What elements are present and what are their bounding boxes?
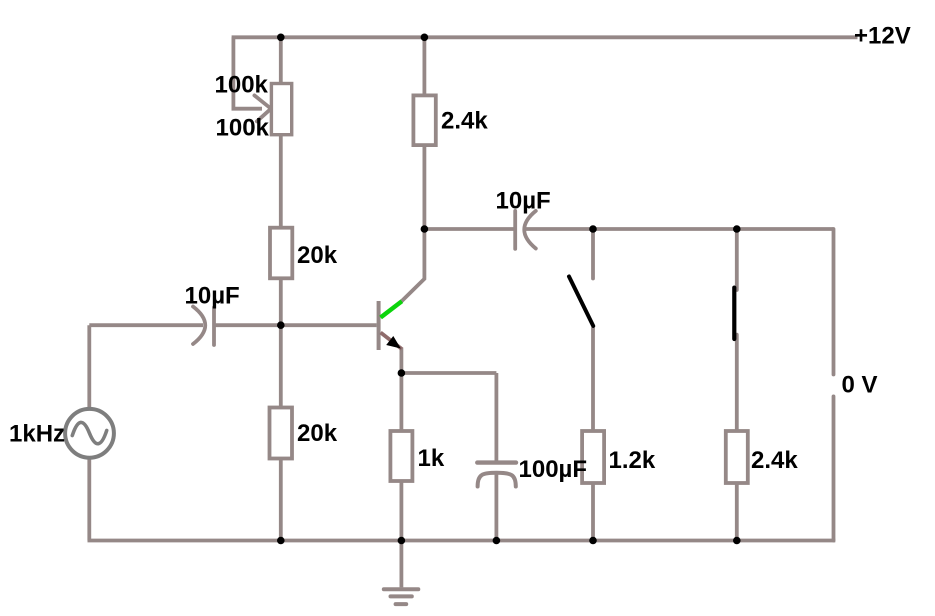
capacitor 10uF input curved plate: [193, 307, 205, 345]
wire output cap to right side: [526, 227, 834, 231]
svg-text:20k: 20k: [297, 420, 338, 447]
node bottom rail / 1k ground: [398, 537, 406, 545]
wire 1.2k to bottom rail: [591, 483, 595, 541]
AC source V1 sine wave: [72, 422, 106, 443]
node top rail / 2.4k: [421, 34, 429, 42]
wire 20k upper bottom to base node: [279, 278, 283, 325]
svg-text:1kHz: 1kHz: [9, 420, 65, 447]
svg-text:+12V: +12V: [854, 23, 911, 50]
wire switch S1 top lead: [591, 229, 595, 279]
svg-text:100k: 100k: [215, 72, 269, 99]
wire right side upper segment: [832, 229, 836, 375]
wire emitter node horizontal: [401, 371, 496, 375]
wire switch S2 top lead: [735, 229, 739, 290]
svg-text:10µF: 10µF: [185, 283, 240, 310]
svg-text:10µF: 10µF: [496, 188, 551, 215]
node output / switch S2: [733, 225, 741, 233]
wire 2.4k bottom to collector corner: [401, 145, 424, 302]
wire 2.4k bottom to rail: [735, 483, 739, 541]
wire down to 100uF cap: [494, 373, 498, 461]
svg-text:100k: 100k: [216, 115, 270, 142]
capacitor 10uF input straight plate: [212, 307, 216, 345]
transistor Q1 collector segment green (current): [381, 301, 402, 317]
wire bottom rail 0V: [88, 539, 836, 543]
svg-text:1k: 1k: [418, 445, 445, 472]
capacitor 10uF output straight plate: [513, 211, 517, 249]
wire 20k lower to bottom rail: [279, 458, 283, 541]
resistor 1k body: [390, 431, 412, 481]
wire top rail to potentiometer top: [279, 37, 283, 84]
wire source top lead: [87, 325, 91, 409]
node output / switch S1: [589, 225, 597, 233]
node bottom rail / 2.4k: [733, 537, 741, 545]
capacitor 100uF curved plate: [478, 473, 516, 487]
switch S1 blade (open): [569, 277, 593, 326]
capacitor 10uF output curved plate: [524, 211, 536, 249]
resistor 20k lower body: [270, 408, 293, 459]
node collector / output: [421, 225, 429, 233]
wire top rail +12V: [232, 35, 858, 39]
ground bar 1: [384, 587, 419, 591]
wire 1k to bottom rail: [399, 481, 403, 541]
node bottom rail / 100uF: [493, 537, 501, 545]
switch S2 blade (closed): [732, 288, 736, 339]
wire input cap to transistor base: [214, 323, 377, 327]
ground bar 2: [391, 594, 412, 598]
capacitor 100uF straight plate: [477, 460, 516, 464]
resistor 2.4k top body: [413, 95, 435, 145]
svg-text:20k: 20k: [297, 242, 338, 269]
wire 2.4k top lead from rail: [422, 37, 426, 96]
svg-text:100µF: 100µF: [519, 456, 588, 483]
svg-text:2.4k: 2.4k: [441, 108, 488, 135]
wire right side lower segment: [832, 396, 836, 540]
wire switch S1 bottom to 1.2k: [591, 328, 595, 432]
wire 100uF to bottom rail: [494, 475, 498, 541]
AC source V1 circle: [65, 409, 114, 458]
wire switch S2 bottom to 2.4k: [735, 335, 739, 432]
wire collector node to output cap: [424, 227, 514, 231]
node bottom rail / 20k: [277, 537, 285, 545]
transistor Q1 base bar: [377, 301, 381, 350]
svg-text:2.4k: 2.4k: [751, 447, 798, 474]
wire emitter vertical: [399, 348, 403, 432]
wire source bottom lead: [87, 458, 91, 541]
resistor 2.4k bottom body: [726, 431, 748, 483]
wire base node down to 20k lower: [279, 325, 283, 408]
potentiometer 100k body: [271, 84, 291, 135]
node top rail / pot: [277, 34, 285, 42]
node base / input: [277, 321, 285, 329]
svg-text:1.2k: 1.2k: [609, 447, 656, 474]
transistor Q1 emitter diagonal: [381, 333, 402, 350]
wire input left horizontal: [89, 323, 203, 327]
wire potentiometer wiper drop: [233, 37, 262, 108]
wire potentiometer bottom to 20k top: [279, 134, 283, 228]
transistor Q1 emitter arrow: [386, 336, 401, 349]
node bottom rail / 1.2k: [589, 537, 597, 545]
ground stub: [399, 541, 403, 588]
node emitter: [398, 369, 406, 377]
ground bar 3: [396, 602, 407, 606]
svg-text:0 V: 0 V: [842, 372, 878, 399]
resistor 20k upper body: [270, 228, 292, 279]
potentiometer wiper arrow: [254, 95, 271, 121]
resistor 1.2k body: [582, 431, 604, 483]
